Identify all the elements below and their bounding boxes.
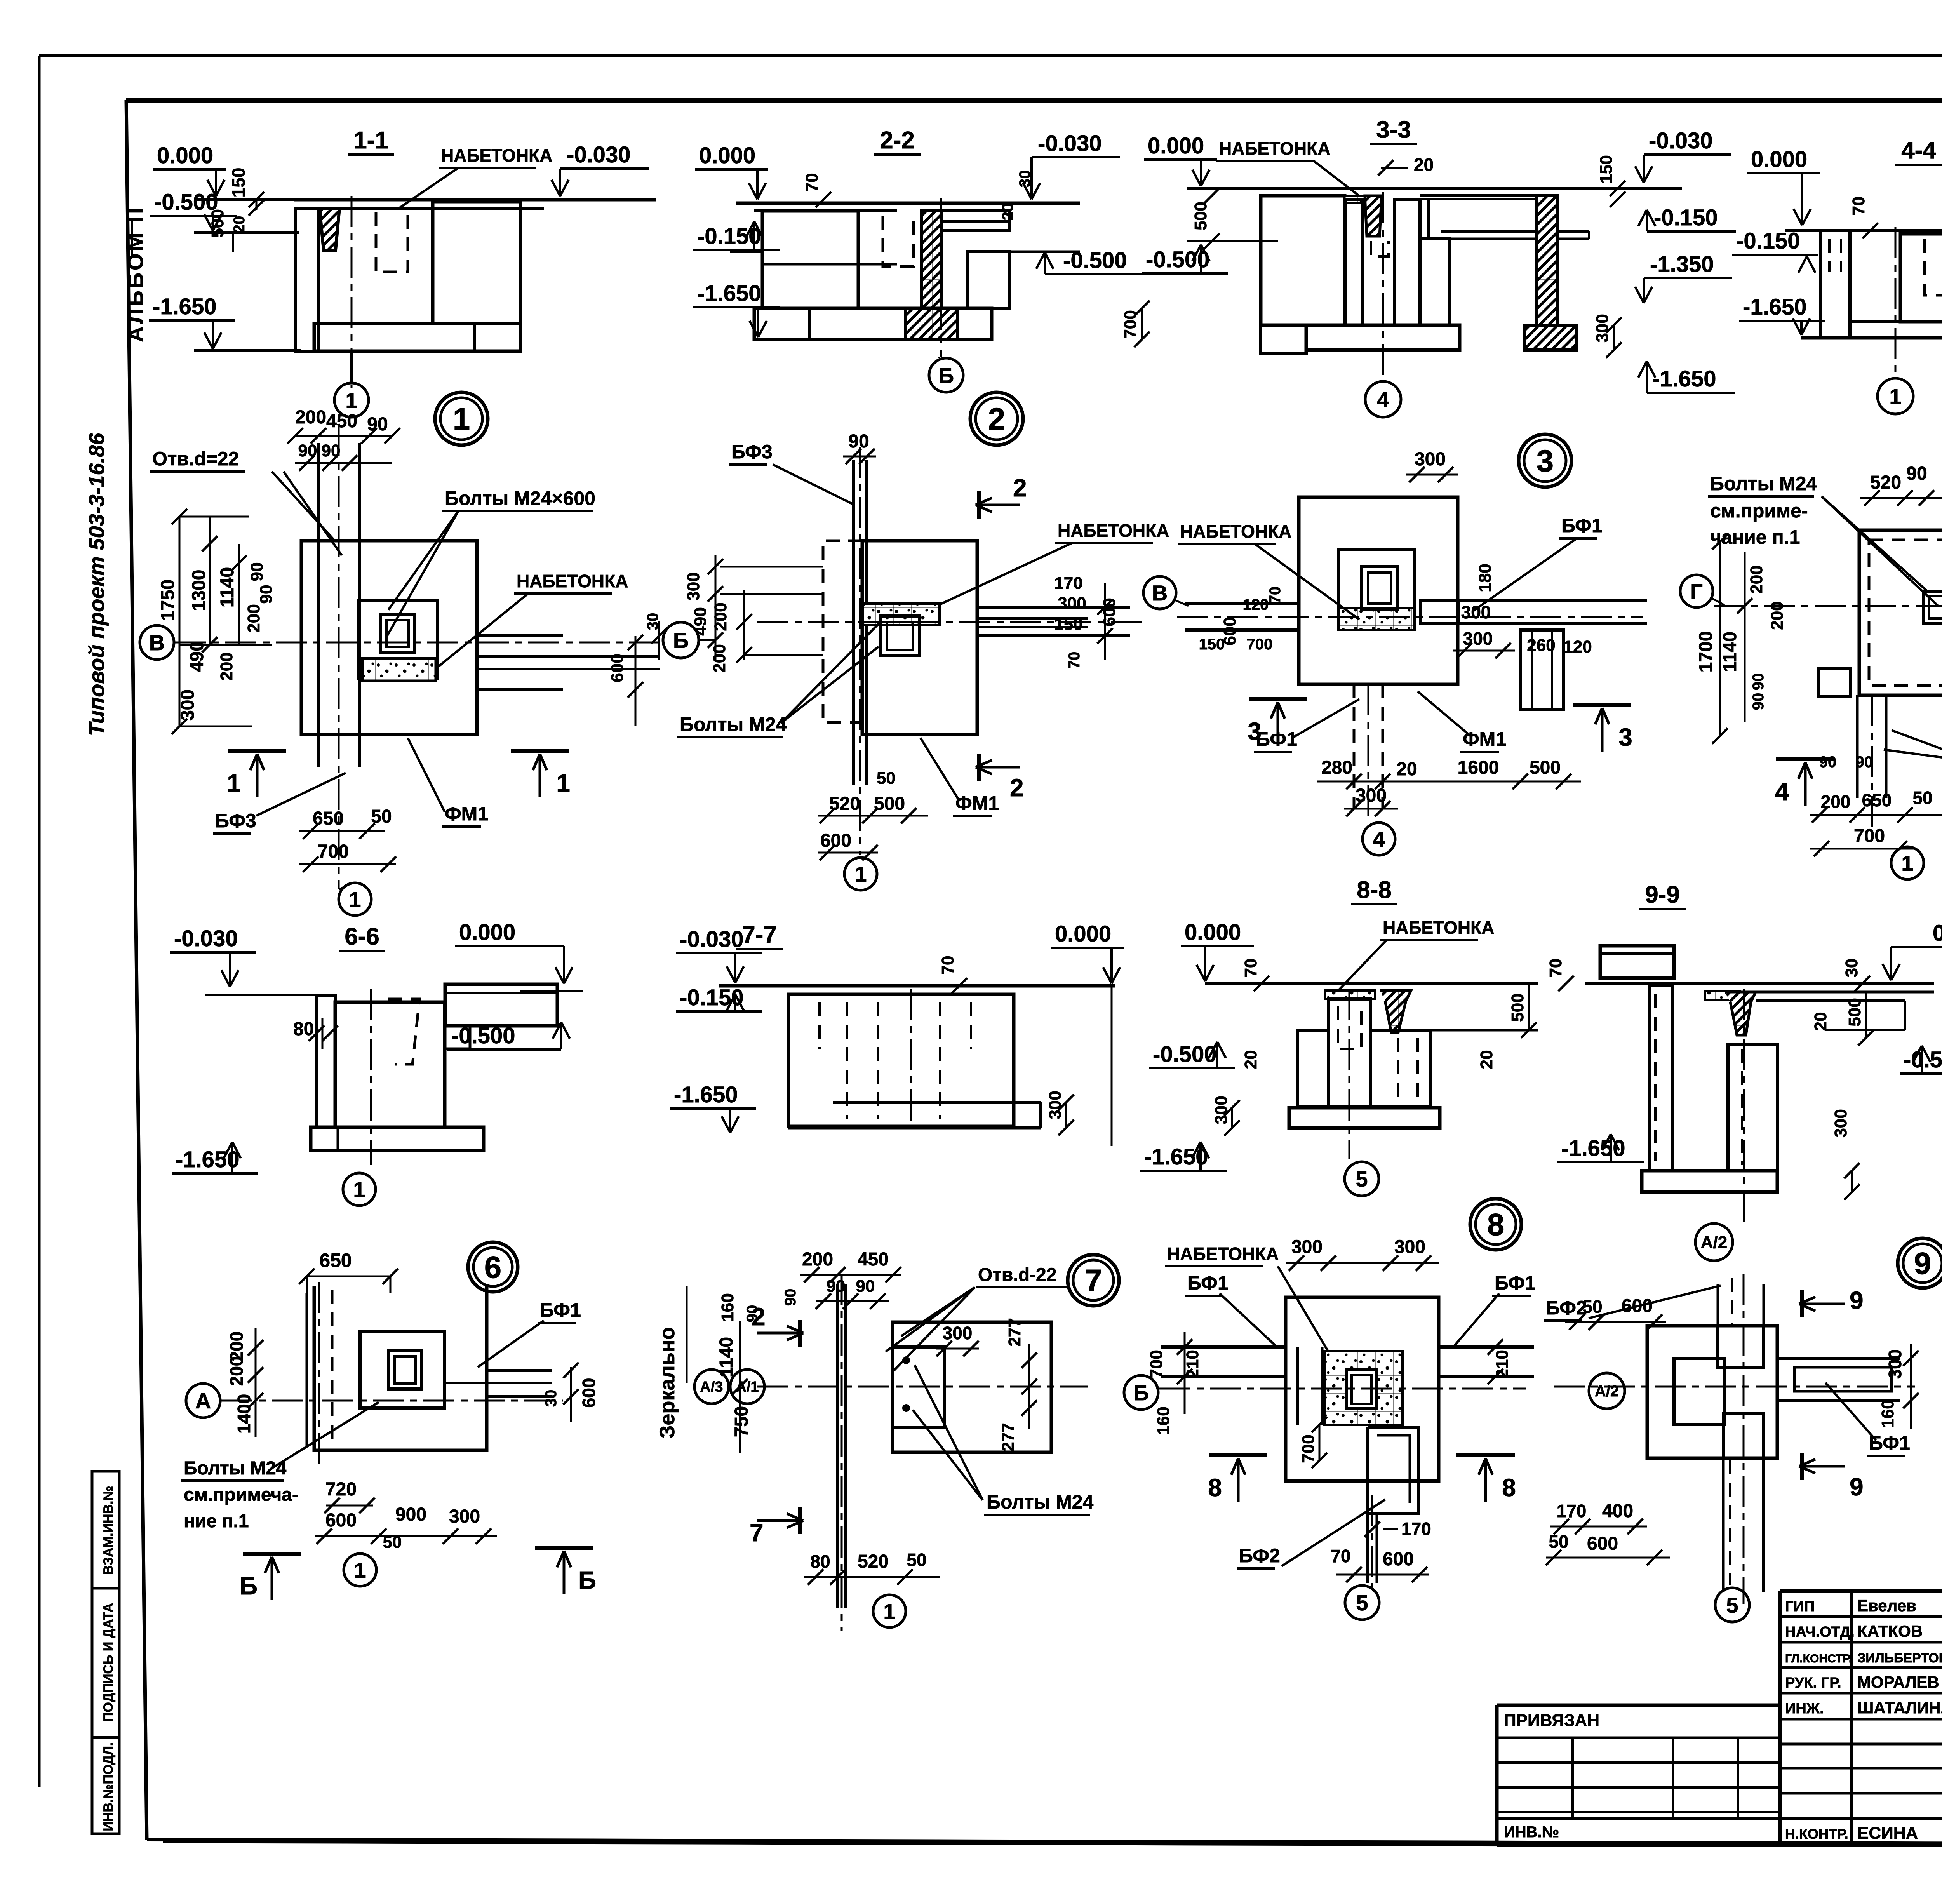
- svg-text:1: 1: [1889, 384, 1901, 409]
- svg-text:МОРАЛЕВ: МОРАЛЕВ: [1857, 1673, 1939, 1691]
- svg-text:8: 8: [1487, 1207, 1505, 1242]
- section 6-6 axis: [370, 989, 372, 1165]
- svg-text:70: 70: [938, 956, 957, 975]
- svg-text:50: 50: [1582, 1297, 1602, 1317]
- svg-text:БФ1: БФ1: [1869, 1432, 1910, 1454]
- section 2-2 right step: [941, 211, 1009, 231]
- svg-text:200: 200: [217, 652, 236, 680]
- svg-text:20: 20: [1414, 155, 1434, 175]
- detail 6 inner square: [360, 1331, 444, 1408]
- detail 6 axis circle A: [186, 1384, 220, 1418]
- svg-text:0.000: 0.000: [1148, 133, 1204, 158]
- svg-text:20: 20: [1396, 759, 1417, 780]
- svg-text:170: 170: [1557, 1501, 1587, 1521]
- svg-text:ВЗАМ.ИНВ.№: ВЗАМ.ИНВ.№: [101, 1486, 116, 1575]
- svg-text:7-7: 7-7: [742, 922, 777, 949]
- svg-text:20: 20: [1477, 1050, 1496, 1069]
- svg-text:Б: Б: [938, 363, 954, 388]
- svg-text:А/2: А/2: [1701, 1233, 1727, 1252]
- detail 2 section mark 2 bottom: [977, 754, 981, 781]
- svg-text:520: 520: [858, 1551, 889, 1572]
- svg-text:НАБЕТОНКА: НАБЕТОНКА: [1219, 138, 1330, 158]
- svg-text:4: 4: [1775, 778, 1789, 806]
- section 9-9 beam box top: [1600, 946, 1674, 978]
- svg-text:400: 400: [1602, 1501, 1633, 1521]
- svg-text:90: 90: [1750, 673, 1767, 691]
- svg-text:-0.030: -0.030: [1649, 128, 1712, 153]
- svg-text:150: 150: [1199, 636, 1225, 653]
- svg-text:200: 200: [802, 1249, 833, 1270]
- privyazan grid: [1497, 1737, 1780, 1739]
- svg-text:200: 200: [295, 407, 326, 428]
- svg-text:Г: Г: [1690, 579, 1703, 604]
- detail 2 column: [880, 616, 920, 656]
- svg-text:БФ1: БФ1: [1256, 728, 1297, 750]
- section 3-3 axis: [1382, 192, 1384, 379]
- svg-text:1700: 1700: [1696, 631, 1716, 673]
- svg-text:80: 80: [293, 1019, 314, 1039]
- svg-text:-0.500: -0.500: [1153, 1042, 1216, 1067]
- detail 7 badge: [1068, 1255, 1119, 1306]
- section 4-4 left wall dashed: [1821, 231, 1850, 338]
- svg-text:2-2: 2-2: [880, 127, 915, 154]
- detail 6 axis circle 1: [344, 1554, 376, 1586]
- svg-text:90: 90: [322, 441, 341, 460]
- section 3-3 axis circle 4: [1365, 381, 1401, 417]
- svg-text:8-8: 8-8: [1357, 877, 1392, 903]
- detail 6 plan outline: [314, 1286, 487, 1450]
- section 3-3 hatched column: [1365, 196, 1382, 236]
- svg-text:-0.030: -0.030: [174, 926, 238, 951]
- detail 7 section mark 7: [798, 1507, 802, 1534]
- detail 4 section mark 4 left: [1776, 757, 1834, 761]
- section 4-4 footing: [1850, 322, 1942, 338]
- svg-text:300: 300: [1593, 314, 1612, 342]
- detail 1 big square FM1: [301, 541, 477, 734]
- section 1-1 left wall: [296, 208, 319, 351]
- svg-text:БФ1: БФ1: [540, 1299, 581, 1321]
- svg-text:БФ1: БФ1: [1187, 1272, 1229, 1294]
- section 6-6 left wall: [317, 995, 335, 1127]
- svg-text:90: 90: [1856, 754, 1873, 771]
- svg-text:1140: 1140: [217, 567, 238, 607]
- svg-text:Отв.d=22: Отв.d=22: [152, 448, 239, 470]
- title block signature rows: [1780, 1615, 1942, 1618]
- detail 3 badge: [1519, 434, 1571, 487]
- svg-text:300: 300: [1831, 1109, 1850, 1137]
- svg-text:НАБЕТОНКА: НАБЕТОНКА: [1058, 520, 1169, 541]
- svg-text:1-1: 1-1: [353, 127, 388, 154]
- svg-text:5: 5: [1356, 1591, 1368, 1615]
- svg-text:-0.150: -0.150: [1654, 205, 1718, 230]
- svg-text:200: 200: [1747, 565, 1766, 593]
- section 8-8 anchor dashed: [1338, 1006, 1361, 1049]
- svg-text:А: А: [195, 1389, 211, 1413]
- section 3-3 stipple: [1345, 196, 1365, 203]
- section 9-9 right slab: [1756, 991, 1934, 994]
- svg-text:0.000: 0.000: [1751, 147, 1807, 172]
- detail 4 small box: [1818, 668, 1850, 697]
- svg-text:РУК. ГР.: РУК. ГР.: [1785, 1675, 1841, 1691]
- svg-text:300: 300: [1046, 1091, 1065, 1119]
- section 3-3 right slabs: [1420, 194, 1538, 197]
- section 3-3 column walls: [1346, 199, 1363, 325]
- detail 3 section mark 3 right: [1573, 703, 1631, 707]
- svg-text:1: 1: [854, 862, 867, 886]
- svg-text:9: 9: [1850, 1286, 1864, 1314]
- svg-text:600: 600: [579, 1378, 599, 1408]
- svg-text:750: 750: [731, 1406, 752, 1437]
- svg-text:300: 300: [684, 572, 703, 600]
- svg-text:НАЧ.ОТД.: НАЧ.ОТД.: [1785, 1624, 1855, 1640]
- detail 3 stipple: [1338, 608, 1415, 630]
- detail 2 stipple band: [863, 604, 940, 625]
- svg-text:20: 20: [231, 216, 248, 233]
- svg-text:600: 600: [1383, 1549, 1414, 1570]
- svg-text:7: 7: [750, 1519, 764, 1547]
- svg-text:720: 720: [325, 1479, 357, 1500]
- svg-text:900: 900: [395, 1504, 426, 1525]
- svg-text:300: 300: [1212, 1096, 1231, 1124]
- detail 8 lower strip: [1366, 1513, 1369, 1583]
- privyazan box: [1497, 1704, 1780, 1707]
- detail 2 badge: [970, 392, 1023, 445]
- svg-text:А/2: А/2: [1595, 1383, 1619, 1400]
- svg-text:-1.650: -1.650: [697, 281, 761, 306]
- section 7-7 big slab: [719, 984, 1115, 988]
- svg-text:300: 300: [943, 1323, 973, 1343]
- section 1-1 axis circle 1: [350, 351, 353, 383]
- section 1-1 anchor dashed: [376, 212, 408, 272]
- svg-text:Болты М24: Болты М24: [987, 1491, 1094, 1513]
- detail 6 dashed strip: [331, 1290, 334, 1447]
- svg-text:70: 70: [1849, 197, 1868, 216]
- svg-text:-1.650: -1.650: [674, 1082, 738, 1107]
- svg-text:2: 2: [1010, 774, 1024, 802]
- detail 2 axis circle bottom: [844, 858, 877, 890]
- svg-text:90: 90: [247, 562, 266, 581]
- section 3-3 ground line: [1187, 187, 1682, 190]
- svg-text:90: 90: [856, 1277, 875, 1296]
- detail 4 big square: [1859, 530, 1942, 695]
- section 8-8 ground line: [1205, 982, 1538, 985]
- svg-text:НАБЕТОНКА: НАБЕТОНКА: [1383, 917, 1494, 938]
- svg-text:500: 500: [1530, 757, 1561, 778]
- title block outline: [1780, 1589, 1942, 1593]
- svg-text:500: 500: [1845, 998, 1864, 1026]
- drawing frame: [126, 98, 1942, 103]
- svg-text:см.приме-: см.приме-: [1710, 500, 1808, 522]
- svg-text:280: 280: [1321, 757, 1352, 778]
- svg-text:300: 300: [1415, 449, 1446, 470]
- svg-text:30: 30: [543, 1390, 560, 1407]
- svg-text:5: 5: [1726, 1593, 1738, 1617]
- svg-text:520: 520: [1870, 472, 1901, 493]
- svg-text:650: 650: [1862, 790, 1892, 810]
- svg-text:150: 150: [1597, 155, 1616, 183]
- svg-text:1750: 1750: [158, 580, 178, 621]
- detail 8 axis circle 5: [1345, 1586, 1379, 1620]
- detail 8 axis circle B: [1124, 1375, 1158, 1410]
- svg-text:НАБЕТОНКА: НАБЕТОНКА: [517, 571, 628, 591]
- section 8-8 stipple band: [1325, 990, 1375, 999]
- detail 6 axis: [221, 1400, 563, 1402]
- section 9-9 footing: [1642, 1171, 1777, 1192]
- svg-text:ФМ1: ФМ1: [955, 792, 999, 814]
- svg-text:490: 490: [691, 607, 710, 635]
- svg-text:90: 90: [257, 585, 276, 604]
- svg-text:Болты М24: Болты М24: [184, 1458, 287, 1479]
- svg-text:90: 90: [1750, 693, 1767, 710]
- svg-text:500: 500: [1508, 993, 1527, 1022]
- detail 3 band right: [1458, 599, 1647, 602]
- detail 7 strip: [836, 1284, 839, 1608]
- section 4-4 ground line: [1785, 229, 1942, 232]
- svg-text:ЗИЛЬБЕРТОВ: ЗИЛЬБЕРТОВ: [1857, 1651, 1942, 1666]
- svg-text:А/1: А/1: [736, 1379, 759, 1395]
- svg-text:90: 90: [1906, 463, 1927, 484]
- section 6-6 anchor dashed trapezoid: [388, 999, 419, 1064]
- svg-text:0.000: 0.000: [459, 920, 515, 945]
- svg-text:30: 30: [1842, 959, 1861, 978]
- svg-text:Болты М24: Болты М24: [1710, 473, 1817, 494]
- svg-text:450: 450: [858, 1249, 889, 1270]
- svg-text:3: 3: [1537, 444, 1554, 478]
- svg-text:50: 50: [1549, 1532, 1568, 1552]
- detail 2 dashed left part: [823, 541, 862, 722]
- svg-text:-0.030: -0.030: [680, 927, 743, 952]
- detail 8 band: [1161, 1345, 1286, 1349]
- svg-text:В: В: [149, 630, 165, 655]
- detail 8 badge: [1470, 1199, 1521, 1250]
- svg-text:700: 700: [1854, 826, 1885, 846]
- detail 8 section marks 8: [1209, 1453, 1267, 1457]
- detail 3 right beam strip: [1520, 630, 1564, 709]
- svg-text:НАБЕТОНКА: НАБЕТОНКА: [1167, 1244, 1279, 1264]
- section 2-2 footing: [754, 308, 992, 339]
- svg-text:90: 90: [744, 1305, 761, 1323]
- svg-text:1400: 1400: [234, 1394, 254, 1434]
- detail 3 axis circle V: [1143, 576, 1176, 609]
- svg-text:150: 150: [228, 168, 249, 198]
- detail 1 badge: [435, 392, 488, 445]
- section 3-3 right inner block: [1420, 239, 1450, 325]
- svg-text:4: 4: [1373, 827, 1385, 851]
- svg-text:-1.650: -1.650: [1561, 1136, 1625, 1161]
- detail 7 bolts: [902, 1356, 910, 1364]
- svg-text:300: 300: [1058, 594, 1086, 613]
- svg-text:90: 90: [1819, 754, 1837, 771]
- section 1-1 hatched column: [320, 208, 339, 250]
- svg-text:20: 20: [1241, 1050, 1260, 1069]
- section 2-2 left block: [762, 211, 858, 308]
- detail 3 band left: [1185, 602, 1299, 605]
- svg-text:-0.030: -0.030: [1038, 131, 1102, 156]
- svg-text:Евелев: Евелев: [1857, 1596, 1916, 1615]
- svg-text:700: 700: [1299, 1434, 1318, 1463]
- svg-text:Н.КОНТР.: Н.КОНТР.: [1785, 1826, 1848, 1842]
- section 3-3 hatched beam: [1536, 196, 1558, 325]
- detail 1 section marks 1: [228, 749, 286, 753]
- section 1-1 slab lines: [294, 198, 656, 202]
- svg-text:650: 650: [319, 1250, 352, 1271]
- detail 1 axis circle V: [140, 625, 174, 660]
- detail 3 axis: [1177, 616, 1643, 618]
- svg-text:30: 30: [1016, 170, 1034, 188]
- svg-text:ФМ1: ФМ1: [1463, 728, 1506, 750]
- detail 8 stipple cross: [1324, 1351, 1403, 1425]
- svg-text:1: 1: [227, 769, 241, 797]
- section 7-7 footing: [833, 1101, 1041, 1104]
- svg-text:ИНВ.№ПОДЛ.: ИНВ.№ПОДЛ.: [101, 1742, 116, 1831]
- svg-text:260: 260: [1527, 636, 1555, 655]
- svg-text:3-3: 3-3: [1376, 117, 1411, 143]
- detail 9 axis circle 5: [1715, 1588, 1749, 1622]
- svg-text:520: 520: [829, 794, 860, 814]
- section 1-1 ground line 0.000: [194, 198, 656, 201]
- section 4-4 column axis: [1895, 227, 1897, 379]
- svg-text:90: 90: [298, 441, 317, 460]
- svg-text:70: 70: [1546, 959, 1565, 978]
- svg-text:Б: Б: [578, 1566, 596, 1594]
- svg-text:Зеркально: Зеркально: [656, 1327, 679, 1438]
- svg-text:600: 600: [1587, 1533, 1618, 1554]
- svg-text:БФ2: БФ2: [1239, 1545, 1280, 1566]
- section 6-6 footing: [311, 1127, 484, 1150]
- section 6-6 ground lines: [205, 994, 322, 996]
- svg-text:-1.650: -1.650: [1652, 366, 1716, 392]
- svg-text:277: 277: [999, 1423, 1018, 1451]
- svg-text:6: 6: [484, 1250, 502, 1284]
- section 8-8 hatched beam: [1380, 990, 1411, 1032]
- svg-text:1140: 1140: [1720, 632, 1740, 672]
- detail 4 lower strip: [1856, 695, 1859, 798]
- detail 4 column: [1924, 591, 1942, 623]
- section 4-4 center block: [1900, 234, 1942, 322]
- svg-text:9: 9: [1914, 1246, 1932, 1281]
- svg-text:-1.650: -1.650: [1743, 294, 1806, 320]
- detail 3 axis circle 4: [1363, 823, 1395, 855]
- svg-text:ГЛ.КОНСТР.: ГЛ.КОНСТР.: [1785, 1652, 1852, 1665]
- section 8-8 footing: [1289, 1108, 1440, 1128]
- detail 9 axis circle A/2: [1589, 1373, 1625, 1409]
- detail 2 big square FM1: [862, 541, 977, 734]
- svg-text:500: 500: [1191, 202, 1210, 230]
- svg-text:70: 70: [802, 173, 821, 192]
- svg-text:300: 300: [1463, 628, 1493, 649]
- svg-text:1: 1: [349, 887, 361, 912]
- svg-text:см.примеча-: см.примеча-: [184, 1485, 298, 1505]
- svg-text:70: 70: [1241, 959, 1260, 978]
- svg-text:7: 7: [1085, 1263, 1102, 1298]
- svg-text:Болты М24: Болты М24: [680, 714, 787, 735]
- section 4-4 anchor dashed: [1925, 239, 1942, 295]
- svg-text:2: 2: [1013, 474, 1027, 502]
- svg-text:ГИП: ГИП: [1785, 1598, 1815, 1615]
- svg-text:500: 500: [874, 794, 905, 814]
- detail 8 inner verticals: [1296, 1347, 1299, 1425]
- detail 6 badge: [468, 1242, 518, 1292]
- detail 9 axis: [1554, 1386, 1915, 1388]
- detail 3 column: [1362, 566, 1397, 610]
- detail 8 big square: [1286, 1297, 1439, 1481]
- section 7-7 inner dashed lines: [818, 1002, 821, 1049]
- svg-text:500: 500: [208, 209, 227, 237]
- detail 7 square: [893, 1322, 1051, 1452]
- svg-text:БФ1: БФ1: [1561, 515, 1603, 536]
- detail 2 wall strip: [852, 460, 855, 785]
- detail 3 lower dashed strip: [1353, 684, 1356, 809]
- section 8-8 axis: [1349, 989, 1350, 1159]
- svg-text:0.000: 0.000: [1933, 921, 1942, 946]
- detail 4 axis circle G: [1680, 575, 1713, 607]
- svg-text:120: 120: [1243, 596, 1269, 613]
- svg-text:ПОДПИСЬ И ДАТА: ПОДПИСЬ И ДАТА: [101, 1603, 116, 1722]
- detail 9 lower strip: [1722, 1458, 1725, 1592]
- svg-text:2: 2: [988, 402, 1006, 436]
- svg-text:-1.650: -1.650: [153, 294, 216, 319]
- svg-text:0.000: 0.000: [157, 143, 213, 168]
- svg-text:9-9: 9-9: [1645, 881, 1680, 908]
- svg-text:1: 1: [354, 1558, 366, 1582]
- detail 6 band right: [487, 1369, 552, 1372]
- svg-text:ФМ1: ФМ1: [445, 803, 488, 825]
- svg-text:700: 700: [1147, 1350, 1166, 1378]
- svg-text:1: 1: [883, 1599, 895, 1624]
- svg-text:300: 300: [1291, 1237, 1323, 1257]
- section 3-3 left block: [1261, 196, 1345, 325]
- svg-text:300: 300: [1394, 1237, 1425, 1257]
- svg-text:3: 3: [1618, 723, 1632, 751]
- svg-text:4-4: 4-4: [1901, 137, 1936, 164]
- svg-text:700: 700: [318, 841, 349, 862]
- svg-text:В: В: [1152, 581, 1168, 605]
- svg-text:Б: Б: [673, 628, 689, 653]
- svg-text:8: 8: [1502, 1474, 1516, 1502]
- svg-text:50: 50: [907, 1550, 926, 1570]
- detail 8 column: [1346, 1370, 1377, 1409]
- svg-text:300: 300: [449, 1506, 480, 1527]
- svg-text:80: 80: [810, 1551, 830, 1572]
- svg-text:450: 450: [326, 411, 357, 432]
- svg-text:600: 600: [1622, 1296, 1653, 1316]
- detail 9 section mark 9 top: [1800, 1290, 1804, 1317]
- svg-text:200: 200: [244, 604, 263, 632]
- detail 1 axis circle bottom: [339, 882, 353, 889]
- svg-text:6-6: 6-6: [345, 923, 379, 950]
- section 6-6 center block: [335, 1002, 445, 1127]
- svg-text:90: 90: [848, 431, 869, 452]
- section 2-2 axis circle Б: [940, 198, 942, 357]
- detail 4 dashed inner: [1869, 540, 1942, 686]
- detail 7 inner step: [893, 1347, 944, 1427]
- svg-text:200: 200: [711, 602, 730, 631]
- section 6-6 axis circle 1: [343, 1173, 376, 1206]
- section 1-1 column axis: [351, 196, 353, 388]
- section 9-9 stipple+hatch: [1705, 991, 1740, 1000]
- svg-text:ние п.1: ние п.1: [184, 1511, 249, 1532]
- title block signature columns: [1850, 1591, 1853, 1845]
- svg-text:Типовой проект 503-3-16.86: Типовой проект 503-3-16.86: [84, 433, 109, 736]
- section 9-9 axis circle A/2: [1695, 1224, 1733, 1261]
- section 1-1 footing: [314, 324, 520, 351]
- detail 1 wall strip: [317, 443, 320, 767]
- svg-text:1300: 1300: [189, 570, 209, 611]
- svg-text:1: 1: [345, 388, 357, 412]
- svg-text:БФ3: БФ3: [215, 810, 256, 832]
- svg-text:170: 170: [1401, 1519, 1431, 1539]
- svg-text:ИНВ.№: ИНВ.№: [1504, 1824, 1559, 1841]
